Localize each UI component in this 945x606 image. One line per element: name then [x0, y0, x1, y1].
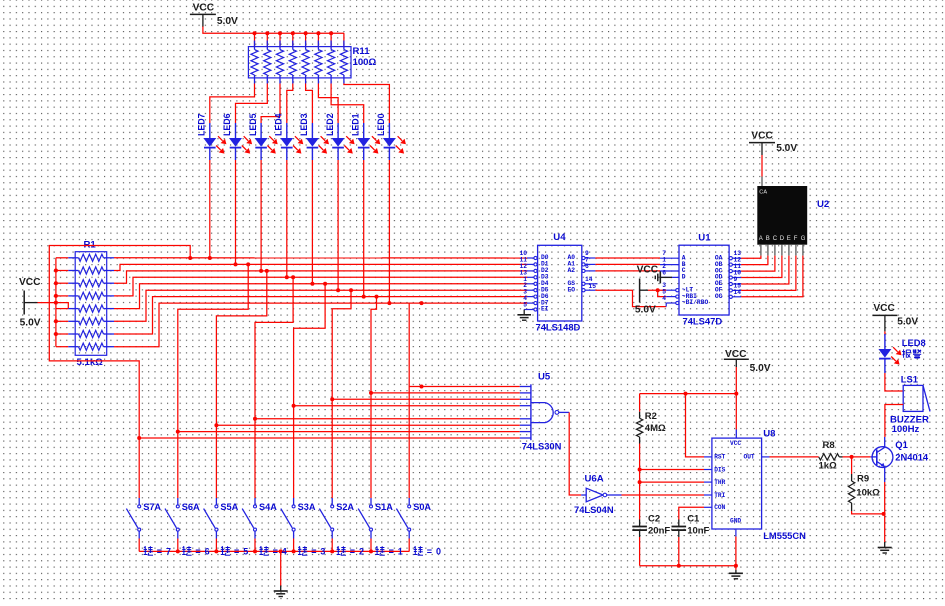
- svg-text:=: =: [427, 547, 432, 557]
- svg-text:B: B: [766, 236, 770, 242]
- svg-text:R11: R11: [353, 46, 371, 57]
- svg-text:5.0V: 5.0V: [20, 318, 41, 329]
- label LED7: [197, 113, 207, 136]
- LED LED8: [878, 334, 901, 373]
- wire VCC to R11 top rail: [203, 27, 344, 34]
- svg-text:U8: U8: [763, 429, 776, 440]
- svg-text:LED2: LED2: [325, 113, 335, 136]
- label 74LS04N: [574, 504, 614, 515]
- junction emitter/R9: [882, 512, 886, 516]
- switch S4A: [242, 496, 256, 551]
- svg-text:VCC: VCC: [730, 440, 741, 447]
- wire LED0 cathode to row8: [388, 160, 390, 303]
- svg-text:VCC: VCC: [19, 277, 41, 288]
- svg-text:U4: U4: [553, 232, 566, 243]
- svg-text:3: 3: [320, 547, 325, 557]
- buzzer LS1: [903, 385, 930, 411]
- svg-text:=: =: [157, 547, 162, 557]
- power VCC (for U2 display): [749, 130, 797, 155]
- junction base/R9: [850, 455, 854, 459]
- junction net1 loop/row1: [188, 256, 192, 260]
- label key 6: [182, 546, 209, 556]
- svg-text:C1: C1: [687, 513, 700, 524]
- svg-text:LED8: LED8: [902, 337, 926, 348]
- wire U4.A1 to U1: [595, 263, 660, 265]
- switch S7A: [126, 496, 140, 551]
- wire U8.OUT to R8: [770, 456, 819, 458]
- svg-text:4: 4: [282, 547, 287, 557]
- svg-text:A: A: [759, 236, 763, 242]
- wire U1.OF to U2.F: [741, 256, 796, 291]
- resistor pack R1: [68, 252, 114, 356]
- svg-text:U1: U1: [698, 232, 711, 243]
- NAND gate U5: [520, 384, 570, 440]
- svg-text:S4A: S4A: [259, 502, 277, 512]
- label S4A: [259, 502, 277, 512]
- svg-text:THR: THR: [714, 479, 725, 486]
- svg-text:S6A: S6A: [182, 502, 200, 512]
- svg-text:S1A: S1A: [375, 502, 393, 512]
- svg-text:2: 2: [359, 547, 364, 557]
- label LS1: [901, 374, 918, 385]
- label Q1: [895, 439, 929, 462]
- svg-text:14: 14: [585, 276, 593, 283]
- junction net8/U5 row1: [420, 385, 424, 389]
- wire VCC jog to R1.5: [56, 303, 68, 309]
- svg-text:GND: GND: [730, 517, 741, 524]
- wire U5 row5: [255, 418, 520, 420]
- wire rail to R2: [639, 394, 641, 412]
- svg-text:14: 14: [734, 289, 742, 296]
- wire R1 left bus: [56, 258, 68, 347]
- wire U5 row2: [371, 392, 520, 394]
- svg-text:VCC: VCC: [637, 265, 659, 276]
- svg-text:OUT: OUT: [744, 454, 755, 461]
- junctions R1 left bus: [54, 269, 58, 337]
- ground (Q1 emitter): [878, 542, 892, 553]
- ground (switch rail): [274, 586, 288, 597]
- wire R11.3 to LED5: [261, 84, 280, 124]
- wire LED8 to buzzer: [885, 373, 903, 391]
- label LED0: [376, 113, 386, 136]
- wire R11.8 to LED0: [344, 84, 390, 124]
- label U5: [538, 372, 551, 383]
- wire net6 row (R1.6-U4.D5): [114, 290, 527, 321]
- LED LED5: [255, 123, 278, 160]
- label S6A: [182, 502, 200, 512]
- wire U4.EO to U1.BI/RBO: [595, 290, 666, 306]
- power VCC (top, for R11): [190, 3, 238, 27]
- junction GND stem/rail: [734, 564, 738, 568]
- wire S7A column: [138, 438, 140, 496]
- svg-text:10kΩ: 10kΩ: [856, 488, 880, 499]
- label 74LS47D: [683, 316, 723, 327]
- svg-text:U6A: U6A: [585, 474, 604, 485]
- svg-text:1kΩ: 1kΩ: [819, 461, 838, 472]
- junction LED6/row2: [234, 262, 238, 266]
- wire buzzer to Q1 collector: [885, 405, 903, 438]
- ground (U4 EI): [517, 315, 531, 320]
- label R8: [819, 440, 838, 472]
- wire S6A column: [177, 432, 179, 496]
- wire net3 row (R1.3-U4.D2): [114, 271, 527, 283]
- junction net8/row8: [420, 301, 424, 305]
- wire R2 bottom bus: [639, 444, 641, 520]
- wire R11.1 to LED7: [210, 84, 255, 124]
- label key 0: [414, 546, 441, 556]
- wire net3 drop to S5A: [216, 271, 266, 425]
- transistor Q1: [872, 437, 893, 482]
- junction U5 row7/column: [176, 430, 180, 434]
- wire LED1 cathode to row7: [363, 160, 365, 297]
- wire net1 row (R1.1-U4.D0): [114, 257, 527, 259]
- junction U5 row8/S7A: [137, 436, 141, 440]
- svg-text:74LS148D: 74LS148D: [536, 322, 581, 333]
- wire U8 GND to rail: [735, 537, 737, 566]
- wire base to R9: [851, 457, 853, 474]
- capacitor C2: [632, 520, 647, 538]
- wire RST tap: [686, 394, 705, 457]
- svg-text:1: 1: [398, 547, 403, 557]
- wire R8 to Q1 base: [843, 456, 874, 458]
- svg-text:2N4014: 2N4014: [895, 451, 929, 462]
- label LED3: [299, 113, 309, 136]
- wire 555 ground rail: [640, 565, 736, 567]
- svg-text:TRI: TRI: [714, 492, 725, 499]
- svg-text:5.0V: 5.0V: [776, 143, 797, 154]
- svg-text:OG: OG: [715, 293, 723, 300]
- wire R11.4 to LED4: [287, 84, 293, 124]
- LED LED7: [203, 123, 226, 160]
- svg-text:EO: EO: [568, 286, 576, 293]
- junction LT/RBI tie: [656, 288, 660, 292]
- svg-text:=: =: [311, 547, 316, 557]
- svg-text:74LS47D: 74LS47D: [683, 316, 723, 327]
- svg-text:6: 6: [662, 269, 666, 276]
- wire R11.6 to LED2: [318, 84, 338, 124]
- LED LED0: [383, 123, 406, 160]
- junction LED7/row1: [208, 256, 212, 260]
- wire switch common rail: [139, 550, 409, 552]
- LED LED2: [332, 123, 355, 160]
- wire S5A column: [215, 425, 217, 496]
- label 74LS148D: [536, 322, 581, 333]
- label S1A: [375, 502, 393, 512]
- junction net4 drop/row: [291, 275, 295, 279]
- resistor R2: [636, 412, 642, 444]
- LED LED4: [280, 123, 303, 160]
- junction U5 row2/column: [369, 391, 373, 395]
- junction LED5/row3: [259, 269, 263, 273]
- wire U1.OA to U2.A: [741, 256, 761, 259]
- junction rail/VCC stem: [734, 392, 738, 396]
- wire U5 row6: [216, 424, 519, 426]
- wire net8 drop (row8 to S0A): [408, 303, 410, 496]
- junction net6 drop/row: [349, 288, 353, 292]
- svg-text:6: 6: [205, 547, 210, 557]
- label BUZZER: [890, 414, 929, 435]
- label key 2: [337, 546, 364, 556]
- wire U6A out to U8 TRI: [622, 494, 705, 496]
- wire U1.OB to U2.B: [741, 256, 768, 265]
- svg-text:=: =: [195, 547, 200, 557]
- labels U4 pin numbers: [519, 250, 596, 309]
- svg-text:F: F: [794, 236, 798, 242]
- resistor R8: [819, 454, 843, 460]
- wire LED3 cathode to row5: [311, 160, 313, 284]
- svg-text:S7A: S7A: [143, 502, 161, 512]
- resistor R9: [848, 474, 854, 511]
- svg-text:100Hz: 100Hz: [892, 424, 920, 435]
- ground (U8): [729, 570, 743, 579]
- svg-text:VCC: VCC: [873, 303, 895, 314]
- svg-text:0: 0: [436, 547, 441, 557]
- svg-text:5.0V: 5.0V: [897, 316, 918, 327]
- junction net7 drop/row: [375, 295, 379, 299]
- wire VCC to R1 bus: [38, 302, 56, 304]
- junction net2 drop/row: [246, 262, 250, 266]
- svg-text:Q1: Q1: [895, 439, 908, 450]
- svg-text:=: =: [234, 547, 239, 557]
- switch S2A: [319, 496, 333, 551]
- wire emitter down: [884, 482, 886, 542]
- label U8: [763, 429, 776, 440]
- junction U5 row6/column: [214, 423, 218, 427]
- svg-text:EI: EI: [541, 306, 549, 313]
- junction U5 row5/column: [253, 417, 257, 421]
- svg-text:A2: A2: [568, 267, 576, 274]
- wire DIS row: [640, 469, 704, 471]
- switch S3A: [281, 496, 295, 551]
- wire U5 row3: [332, 398, 520, 400]
- wire U4.A2 to U1: [595, 270, 660, 272]
- wire net5 row (R1.5-U4.D4): [114, 284, 527, 309]
- labels U4 internal pins: [541, 254, 575, 313]
- LED LED3: [306, 123, 329, 160]
- wire U1.OD to U2.D: [741, 256, 782, 278]
- svg-text:LED1: LED1: [350, 113, 360, 136]
- wire U5 out to U6A: [569, 412, 581, 495]
- LED LED6: [229, 123, 252, 160]
- label U2: [817, 199, 829, 210]
- svg-text:C2: C2: [648, 513, 660, 524]
- label 74LS30N: [522, 441, 562, 452]
- LED LED1: [357, 123, 380, 160]
- wire net7 row (R1.7-U4.D6): [114, 297, 527, 334]
- label LED1: [350, 113, 360, 136]
- wire R11.5 to LED3: [306, 84, 313, 124]
- svg-text:LED5: LED5: [248, 113, 258, 136]
- wire VCC to LT: [648, 289, 666, 291]
- wire net1 loop (row1 to S7A): [49, 246, 190, 439]
- wire VCC to LED8: [884, 331, 886, 335]
- svg-text:LED4: LED4: [273, 113, 283, 136]
- svg-text:RST: RST: [714, 454, 725, 461]
- wire net2 drop to S6A: [178, 264, 248, 431]
- svg-text:R8: R8: [823, 440, 835, 451]
- junction R2bus/THR: [638, 480, 642, 484]
- svg-text:100Ω: 100Ω: [353, 57, 377, 68]
- svg-text:S0A: S0A: [413, 502, 431, 512]
- svg-text:VCC: VCC: [751, 130, 773, 141]
- label U1: [698, 232, 711, 243]
- junction R2bus/DIS: [638, 468, 642, 472]
- junction LED0/row8: [387, 301, 391, 305]
- wire LED5 cathode to row3: [260, 160, 262, 271]
- wire top rail R2/RST/VCC: [640, 393, 737, 395]
- wire S3A column: [293, 406, 295, 496]
- labels U1 internal pins: [682, 254, 723, 306]
- junction C1/ground rail: [677, 564, 681, 568]
- label key 7: [144, 546, 171, 556]
- svg-text:~BI/RBO: ~BI/RBO: [682, 299, 709, 306]
- svg-text:=: =: [273, 547, 278, 557]
- svg-text:R2: R2: [645, 411, 657, 422]
- wire U4.A0 to U1: [595, 257, 660, 259]
- svg-text:=: =: [350, 547, 355, 557]
- svg-text:5.0V: 5.0V: [635, 304, 656, 315]
- junction LED4/row4: [285, 275, 289, 279]
- svg-text:LED3: LED3: [299, 113, 309, 136]
- label key 5: [221, 546, 248, 556]
- label LED4: [273, 113, 283, 136]
- switch S1A: [358, 496, 372, 551]
- svg-text:S2A: S2A: [336, 502, 354, 512]
- svg-text:74LS04N: 74LS04N: [574, 504, 614, 515]
- IC U1 74LS47D box+pins: [660, 245, 741, 315]
- IC U8 LM555CN box+pins: [704, 438, 770, 536]
- label key 1: [375, 546, 402, 556]
- 7-segment display U2: [757, 186, 807, 256]
- svg-text:10nF: 10nF: [687, 525, 709, 536]
- wire U1.OG to U2.G: [741, 256, 803, 297]
- capacitor C1: [672, 520, 687, 538]
- wire S4A column: [254, 419, 256, 496]
- label S2A: [336, 502, 354, 512]
- junction LED3/row5: [310, 282, 314, 286]
- wire U4 EI to ground: [524, 310, 527, 315]
- wire R11.7 to LED1: [331, 84, 364, 124]
- wire net4 row (R1.4-U4.D3): [114, 277, 527, 296]
- svg-text:LED7: LED7: [197, 113, 207, 136]
- inverter U6A: [581, 488, 621, 502]
- labels U1 pin numbers: [662, 250, 741, 302]
- svg-text:20nF: 20nF: [648, 525, 670, 536]
- label LED2: [325, 113, 335, 136]
- junction U5 row3/column: [330, 397, 334, 401]
- label U6A: [585, 474, 604, 485]
- wire U5 row1: [409, 386, 520, 388]
- wire net2 row (R1.2-U4.D1): [114, 264, 527, 270]
- svg-text:LS1: LS1: [901, 374, 918, 385]
- svg-text:VCC: VCC: [725, 349, 747, 360]
- label LED5: [248, 113, 258, 136]
- wire VCC to RBI: [658, 290, 667, 296]
- junction net5 drop/row: [323, 282, 327, 286]
- svg-text:C: C: [773, 236, 778, 242]
- wire U1.D to ground: [660, 276, 672, 278]
- label S0A: [413, 502, 431, 512]
- svg-text:D: D: [682, 274, 686, 281]
- wire VCC to U2 CA: [761, 155, 763, 186]
- wire LED6 cathode to row2: [235, 160, 237, 264]
- label R11: [353, 46, 377, 68]
- wire R9 to emitter: [852, 511, 884, 514]
- wire U5 row8: [139, 437, 520, 439]
- junctions switch rail: [176, 549, 373, 553]
- label LM555CN: [763, 530, 806, 541]
- junctions R11 top rail: [253, 31, 334, 35]
- power VCC (left, for R1): [19, 277, 41, 328]
- resistor pack R11: [248, 33, 351, 83]
- power VCC (for U8): [724, 349, 771, 374]
- svg-text:7: 7: [166, 547, 171, 557]
- switch S0A: [396, 496, 410, 551]
- svg-text:CON: CON: [714, 504, 725, 511]
- svg-text:R9: R9: [857, 474, 869, 485]
- svg-text:D: D: [780, 236, 785, 242]
- label S3A: [298, 502, 316, 512]
- wire LED2 cathode to row6: [337, 160, 339, 290]
- junction LED1/row7: [362, 295, 366, 299]
- wire R11.2 to LED6: [236, 84, 268, 124]
- wire U1.OE to U2.E: [741, 256, 789, 284]
- svg-text:E: E: [787, 236, 791, 242]
- svg-text:G: G: [801, 236, 806, 242]
- label R1: [77, 240, 104, 369]
- wire THR row: [640, 481, 704, 483]
- label R2: [645, 411, 666, 434]
- switch S5A: [204, 496, 218, 551]
- svg-text:74LS30N: 74LS30N: [522, 441, 562, 452]
- ground (U1 D, rotated): [655, 271, 660, 283]
- svg-text:4MΩ: 4MΩ: [645, 423, 666, 434]
- junction net3 drop/row: [265, 269, 269, 273]
- svg-text:5: 5: [243, 547, 248, 557]
- wire U5 row7: [178, 431, 520, 433]
- junction U5 row4/column: [292, 404, 296, 408]
- svg-text:4: 4: [662, 295, 666, 302]
- svg-text:LM555CN: LM555CN: [763, 530, 806, 541]
- junction LED2/row6: [336, 288, 340, 292]
- wire C2 bottom: [639, 537, 641, 566]
- label U4: [553, 232, 566, 243]
- wire net7 drop to S1A: [371, 297, 377, 393]
- svg-text:LED0: LED0: [376, 113, 386, 136]
- wire gnd stem: [735, 566, 737, 570]
- label S5A: [220, 502, 238, 512]
- wire VCC stem to U8.VCC: [735, 367, 737, 438]
- wire LED7 cathode to row1: [209, 160, 211, 258]
- wire C1 bottom: [678, 537, 680, 566]
- wire net4 drop to S4A: [255, 277, 293, 419]
- svg-text:=: =: [389, 547, 394, 557]
- label key 4: [259, 546, 286, 556]
- IC U4 74LS148D box+pins: [527, 245, 582, 321]
- label LED8: [902, 337, 926, 358]
- label S7A: [143, 502, 161, 512]
- label C1: [687, 513, 709, 536]
- wire rail to ground: [280, 551, 282, 585]
- wire S1A column: [370, 393, 372, 496]
- wire U1.OC to U2.C: [741, 256, 775, 272]
- svg-text:S3A: S3A: [298, 502, 316, 512]
- power VCC (for LED8): [872, 303, 918, 332]
- wire LED4 cathode to row4: [286, 160, 288, 277]
- junction rail/RST tap: [684, 392, 688, 396]
- wire U5 row4: [294, 405, 520, 407]
- svg-text:S5A: S5A: [220, 502, 238, 512]
